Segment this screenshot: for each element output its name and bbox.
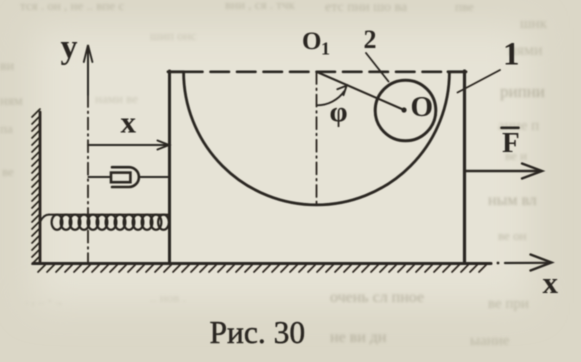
- damper piston rect: [111, 173, 130, 183]
- 2 leader line: [366, 53, 389, 82]
- ground hatching: [38, 264, 487, 272]
- svg-text:рипни: рипни: [500, 82, 545, 101]
- svg-text:x: x: [121, 105, 137, 140]
- damper shell: [112, 167, 139, 187]
- x displacement arrow: [88, 144, 167, 146]
- svg-text:етс пни шо ва: етс пни шо ва: [325, 0, 408, 15]
- svg-text:O: O: [411, 91, 434, 123]
- spring lead from wall: [41, 215, 50, 221]
- F arrow: [466, 170, 538, 172]
- x-axis continuation (dash-dot + arrow): [497, 262, 500, 265]
- svg-text:шип онс: шип онс: [150, 28, 197, 43]
- spring top line: [49, 214, 169, 216]
- svg-text:па: па: [0, 121, 13, 136]
- svg-text:ве он: ве он: [498, 228, 527, 243]
- vertical dash-dot through O1: [316, 72, 318, 204]
- svg-text:F: F: [502, 127, 520, 159]
- block top edge (dashed over cavity): [168, 70, 184, 73]
- y-axis: [87, 47, 89, 95]
- svg-text:Рис. 30: Рис. 30: [210, 315, 306, 350]
- svg-text:2: 2: [364, 25, 377, 54]
- wall hatching: [32, 109, 40, 264]
- radius line O1 to ball center: [317, 72, 403, 110]
- svg-text:тся . он , не .. впе с: тся . он , не .. впе с: [20, 0, 124, 13]
- wall line: [39, 112, 42, 263]
- cavity arc: [184, 72, 450, 205]
- svg-text:x: x: [543, 265, 559, 300]
- svg-text:1: 1: [321, 39, 330, 59]
- svg-text:.. нов .: .. нов .: [150, 290, 186, 305]
- svg-text:вни , ся . тчк: вни , ся . тчк: [225, 0, 296, 12]
- spring coils: [52, 215, 169, 230]
- svg-text:ве при: ве при: [488, 296, 529, 312]
- svg-text:1: 1: [503, 37, 520, 73]
- svg-text:y: y: [61, 29, 78, 66]
- damper rod left: [89, 176, 112, 178]
- x-axis arrowhead: [531, 255, 552, 271]
- svg-text:ви: ви: [0, 59, 15, 74]
- svg-text:ным вл: ным вл: [488, 192, 537, 209]
- svg-text:. , .. ­- .,: . , .. ­- .,: [25, 292, 62, 307]
- svg-text:ве: ве: [2, 164, 14, 179]
- svg-text:φ: φ: [330, 96, 348, 128]
- y-axis arrowhead: [84, 45, 93, 62]
- ball center dot: [401, 107, 406, 112]
- damper rod right: [139, 176, 169, 178]
- 1 leader line: [458, 70, 501, 93]
- block right edge: [463, 71, 466, 263]
- svg-text:шнк: шнк: [520, 16, 548, 32]
- svg-text:ням: ням: [0, 94, 23, 109]
- svg-text:не ви дн: не ви дн: [330, 329, 387, 346]
- phi angle arc: [317, 91, 344, 105]
- svg-text:ыание: ыание: [470, 333, 510, 349]
- svg-text:O: O: [302, 28, 321, 55]
- ground line: [33, 262, 491, 265]
- svg-text:очень cл пное: очень cл пное: [330, 289, 424, 306]
- block left edge: [168, 71, 171, 263]
- ball circle: [375, 80, 436, 141]
- svg-text:пве: пве: [455, 0, 474, 14]
